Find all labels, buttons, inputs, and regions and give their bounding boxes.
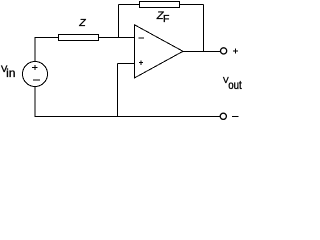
terminal minus label [232, 116, 239, 118]
wire non-inverting input riser [117, 64, 119, 117]
wire op-amp output [183, 51, 222, 53]
wire non-inverting input horizontal [118, 63, 135, 65]
wire Vin bottom vertical [34, 87, 36, 117]
output terminal bottom [220, 113, 226, 119]
svg-text:Z: Z [78, 17, 86, 29]
op-amp U1 [135, 25, 184, 78]
terminal plus label [233, 48, 238, 53]
voltage source minus sign [33, 79, 40, 81]
wire Z to op-amp inverting input [99, 37, 135, 39]
op-amp non-inverting input plus label [139, 61, 143, 65]
voltage source Vin circle [23, 62, 48, 87]
output terminal top [221, 48, 227, 54]
svg-text:F: F [163, 13, 169, 25]
wire top-left horizontal to Z [35, 37, 59, 39]
wire Vin top vertical [34, 38, 36, 63]
wire feedback tap vertical at node A [118, 5, 120, 38]
wire bottom rail [35, 116, 221, 118]
wire top feedback left of ZF [119, 4, 140, 6]
wire feedback right vertical [203, 5, 205, 52]
svg-text:out: out [228, 78, 242, 92]
voltage source plus sign [32, 65, 38, 70]
op-amp inverting input minus label [138, 37, 144, 39]
svg-text:in: in [6, 66, 15, 80]
resistor Z [59, 35, 99, 41]
resistor ZF [140, 2, 180, 8]
wire top feedback right of ZF [180, 4, 204, 6]
